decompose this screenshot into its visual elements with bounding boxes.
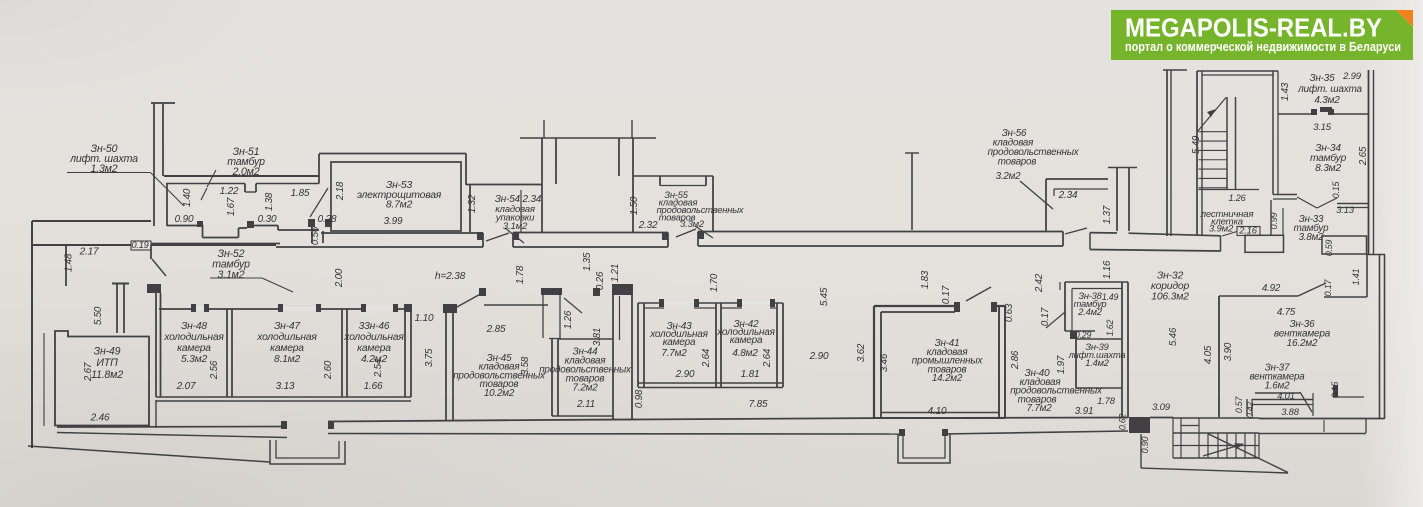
svg-text:MEGAPOLIS-REAL.BY: MEGAPOLIS-REAL.BY (1125, 13, 1382, 43)
svg-text:0.28: 0.28 (318, 214, 337, 225)
svg-text:4.10: 4.10 (928, 406, 947, 417)
svg-text:4.3м2: 4.3м2 (1314, 95, 1340, 106)
svg-text:1.85: 1.85 (291, 188, 310, 199)
svg-text:3.13: 3.13 (1336, 205, 1355, 216)
svg-text:2.86: 2.86 (1010, 350, 1021, 370)
svg-text:1.32: 1.32 (467, 194, 478, 213)
svg-text:5.3м2: 5.3м2 (181, 354, 208, 365)
svg-text:2.32: 2.32 (638, 220, 658, 231)
svg-text:8.7м2: 8.7м2 (386, 200, 413, 211)
svg-text:товаров: товаров (998, 157, 1037, 168)
svg-text:коридор: коридор (1151, 281, 1190, 292)
svg-text:1.66: 1.66 (364, 381, 383, 392)
svg-text:4.05: 4.05 (1203, 345, 1214, 364)
svg-text:0.19: 0.19 (131, 240, 148, 250)
svg-text:1.38: 1.38 (264, 192, 275, 211)
svg-text:холодильная: холодильная (256, 332, 317, 343)
svg-text:2.11: 2.11 (576, 399, 595, 410)
svg-text:1.10: 1.10 (415, 313, 434, 324)
svg-text:1.35: 1.35 (582, 252, 593, 271)
svg-text:2.64: 2.64 (701, 348, 712, 368)
svg-text:4.01: 4.01 (1277, 390, 1294, 401)
svg-text:0.42: 0.42 (1245, 402, 1255, 419)
svg-text:камера: камера (177, 343, 211, 354)
svg-text:5.50: 5.50 (93, 306, 104, 325)
svg-text:Зн-48: Зн-48 (181, 321, 207, 332)
svg-text:1.4м2: 1.4м2 (1085, 358, 1109, 368)
svg-text:ИТП: ИТП (96, 357, 118, 369)
svg-text:2.60: 2.60 (323, 360, 334, 380)
svg-text:1.83: 1.83 (920, 270, 931, 289)
svg-text:3.46: 3.46 (879, 353, 890, 372)
svg-text:4.8м2: 4.8м2 (732, 348, 758, 359)
svg-text:1.37: 1.37 (1102, 205, 1113, 224)
svg-text:2.64: 2.64 (762, 348, 773, 368)
svg-text:3.2м2: 3.2м2 (996, 171, 1022, 182)
svg-text:2.99: 2.99 (1342, 71, 1362, 82)
svg-text:1.70: 1.70 (709, 273, 720, 292)
svg-text:8.3м2: 8.3м2 (1315, 163, 1341, 174)
svg-text:1.78: 1.78 (515, 265, 526, 284)
svg-text:0.17: 0.17 (1323, 278, 1333, 296)
svg-text:холодильная: холодильная (343, 332, 404, 343)
svg-text:5.45: 5.45 (819, 287, 830, 306)
svg-text:14.2м2: 14.2м2 (932, 373, 963, 384)
svg-text:0.17: 0.17 (1040, 307, 1051, 326)
svg-text:0.63: 0.63 (1004, 303, 1015, 322)
svg-text:16.2м2: 16.2м2 (1287, 338, 1318, 349)
svg-text:3.62: 3.62 (856, 343, 867, 362)
svg-text:камера: камера (270, 343, 304, 354)
svg-text:2.46: 2.46 (90, 413, 110, 424)
svg-text:3.90: 3.90 (1223, 342, 1234, 361)
svg-text:3.75: 3.75 (424, 348, 435, 367)
svg-text:3.1м2: 3.1м2 (503, 221, 528, 232)
svg-text:Зн-35: Зн-35 (1309, 73, 1335, 84)
svg-text:3.09: 3.09 (1152, 402, 1171, 413)
svg-text:7.2м2: 7.2м2 (573, 383, 599, 394)
svg-text:3.58: 3.58 (520, 356, 531, 375)
svg-text:3.15: 3.15 (1313, 122, 1332, 133)
svg-text:1.40: 1.40 (182, 188, 193, 207)
svg-text:3.13: 3.13 (276, 381, 295, 392)
svg-text:33н-46: 33н-46 (359, 321, 390, 332)
svg-text:2.54: 2.54 (373, 358, 384, 378)
svg-text:3.99: 3.99 (384, 216, 403, 227)
svg-text:0.15: 0.15 (1331, 180, 1341, 198)
svg-text:Зн-47: Зн-47 (274, 321, 301, 332)
svg-text:5.46: 5.46 (1168, 327, 1179, 346)
svg-text:106.3м2: 106.3м2 (1151, 292, 1189, 303)
svg-text:3.91: 3.91 (1075, 406, 1094, 417)
svg-text:3.1м2: 3.1м2 (218, 269, 245, 281)
svg-text:1.26: 1.26 (563, 310, 574, 329)
svg-text:1.21: 1.21 (610, 264, 621, 282)
svg-text:0.98: 0.98 (634, 389, 645, 408)
svg-text:1.67: 1.67 (226, 197, 237, 216)
svg-text:0.30: 0.30 (258, 214, 277, 225)
svg-text:1.16: 1.16 (1102, 260, 1113, 279)
svg-text:2.16: 2.16 (1238, 224, 1257, 235)
svg-text:7.85: 7.85 (749, 399, 768, 410)
svg-text:0.90: 0.90 (175, 214, 194, 225)
svg-text:5.49: 5.49 (1191, 135, 1202, 154)
svg-text:3.81: 3.81 (592, 328, 603, 346)
svg-text:3.88: 3.88 (1281, 406, 1299, 417)
svg-text:0.29: 0.29 (1075, 330, 1092, 340)
svg-text:1.62: 1.62 (1105, 320, 1115, 337)
svg-text:0.26: 0.26 (595, 271, 606, 290)
svg-text:4.92: 4.92 (1262, 283, 1281, 294)
svg-text:1.81: 1.81 (741, 369, 760, 380)
svg-text:лифт. шахта: лифт. шахта (1297, 83, 1362, 95)
svg-text:2.65: 2.65 (1358, 146, 1369, 166)
svg-text:2.07: 2.07 (176, 381, 196, 392)
svg-text:h=2.38: h=2.38 (435, 271, 466, 282)
svg-text:11.8м2: 11.8м2 (91, 369, 123, 381)
svg-text:1.50: 1.50 (629, 196, 640, 215)
svg-text:3.8м2: 3.8м2 (1299, 232, 1325, 243)
svg-text:Зн-49: Зн-49 (94, 346, 121, 358)
svg-text:1.3м2: 1.3м2 (91, 163, 118, 175)
svg-text:1.41: 1.41 (1351, 268, 1361, 285)
svg-text:Зн-32: Зн-32 (1157, 271, 1184, 282)
svg-text:1.49: 1.49 (1102, 292, 1119, 302)
svg-text:2.42: 2.42 (1034, 273, 1045, 293)
svg-text:1.22: 1.22 (220, 186, 239, 197)
svg-text:2.90: 2.90 (675, 369, 695, 380)
svg-text:2.00: 2.00 (334, 268, 345, 288)
svg-text:портал о коммерческой недвижим: портал о коммерческой недвижимости в Бел… (1125, 39, 1401, 54)
svg-text:2.90: 2.90 (809, 351, 829, 362)
svg-text:камера: камера (357, 343, 391, 354)
svg-text:2.85: 2.85 (486, 324, 506, 335)
svg-text:холодильная: холодильная (163, 332, 224, 343)
svg-text:0.99: 0.99 (1269, 212, 1279, 229)
svg-text:1.48: 1.48 (64, 253, 75, 272)
svg-text:4.75: 4.75 (1277, 307, 1296, 318)
svg-text:2.34: 2.34 (1058, 190, 1078, 201)
svg-text:0.90: 0.90 (1140, 436, 1150, 453)
svg-text:камера: камера (663, 337, 696, 348)
svg-text:0.17: 0.17 (941, 285, 952, 304)
svg-text:0.15: 0.15 (1330, 382, 1340, 399)
svg-text:8.1м2: 8.1м2 (274, 354, 301, 365)
svg-text:7.7м2: 7.7м2 (1027, 403, 1053, 414)
svg-text:1.78: 1.78 (1097, 395, 1115, 406)
svg-text:7.7м2: 7.7м2 (661, 348, 687, 359)
svg-text:1.97: 1.97 (1056, 355, 1067, 374)
svg-text:0.62: 0.62 (1118, 414, 1128, 431)
svg-text:2.18: 2.18 (335, 181, 346, 201)
svg-text:2.17: 2.17 (79, 247, 99, 258)
svg-text:0.57: 0.57 (1234, 396, 1244, 414)
svg-text:2.56: 2.56 (209, 360, 220, 380)
svg-text:2.4м2: 2.4м2 (1077, 307, 1102, 317)
svg-text:камера: камера (730, 335, 763, 346)
svg-text:0.59: 0.59 (1324, 240, 1334, 257)
svg-text:1.26: 1.26 (1228, 193, 1246, 203)
svg-text:3.3м2: 3.3м2 (680, 218, 705, 229)
svg-text:3.9м2: 3.9м2 (1209, 224, 1234, 235)
svg-text:1.43: 1.43 (1280, 82, 1291, 101)
svg-text:10.2м2: 10.2м2 (484, 388, 515, 399)
svg-text:0.56: 0.56 (310, 226, 321, 245)
